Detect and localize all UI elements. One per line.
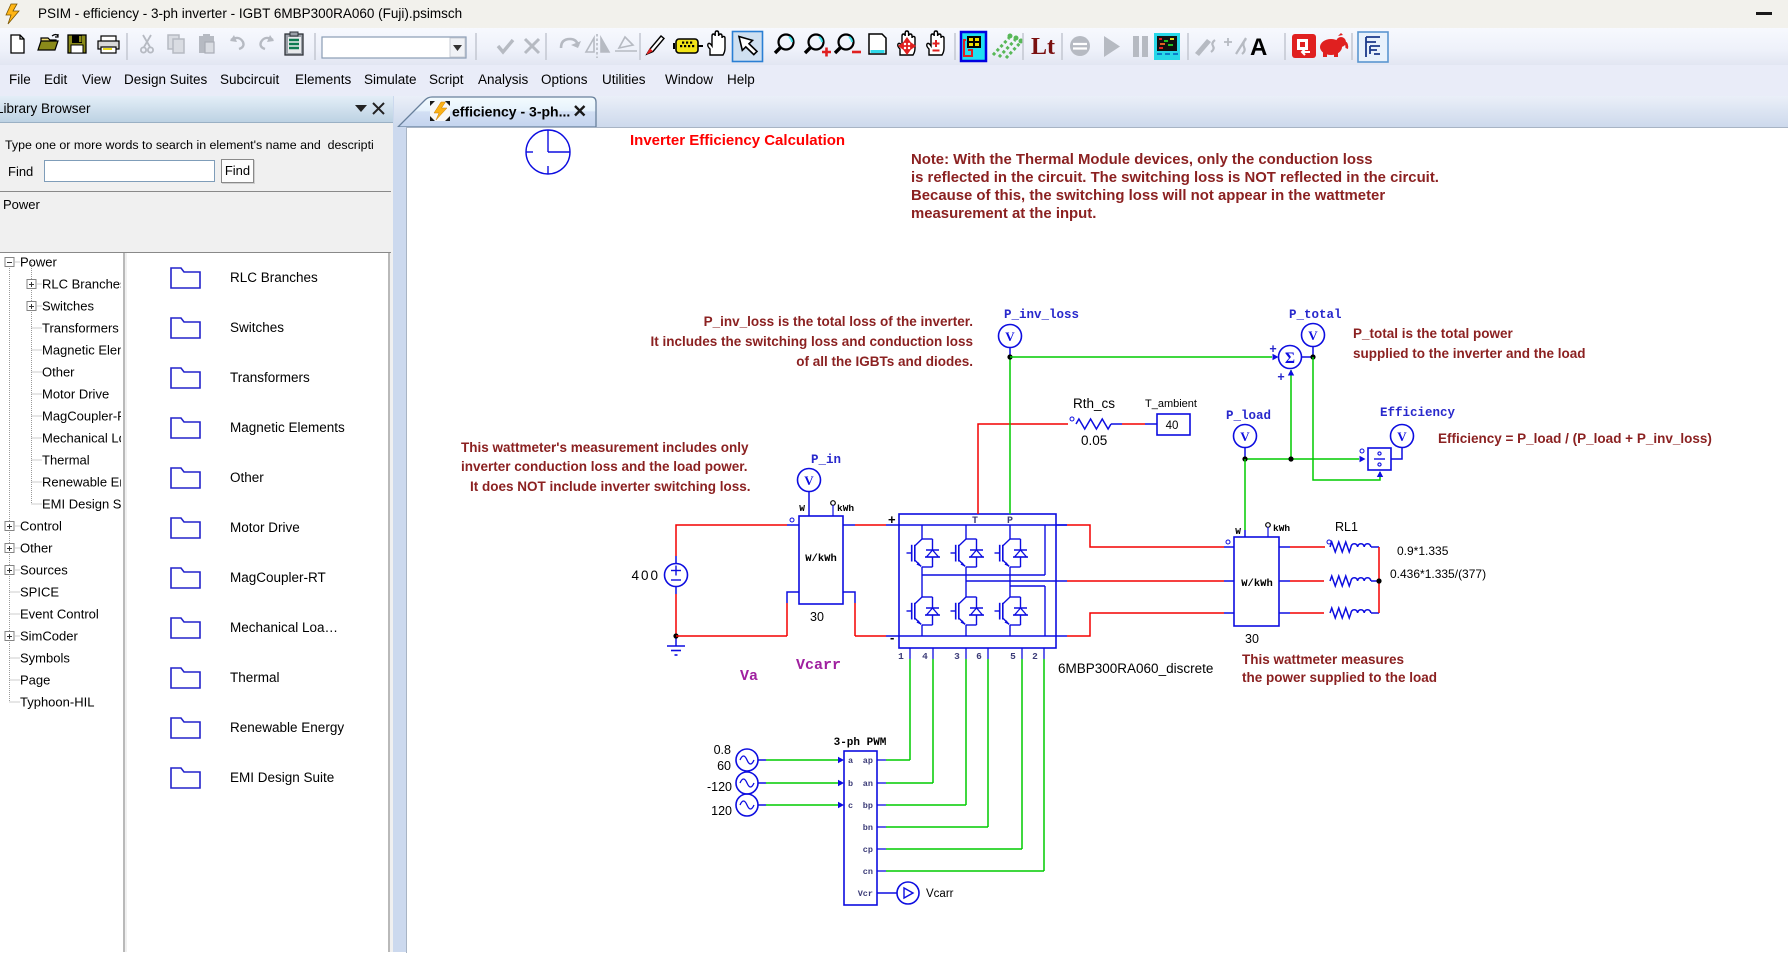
- node marker: load wattmeter phase A input: [1226, 540, 1230, 544]
- label: 60: [717, 759, 731, 773]
- svg-text:Vcr: Vcr: [858, 889, 873, 899]
- svg-text:a: a: [848, 756, 853, 766]
- svg-text:is reflected in the circuit.: is reflected in the circuit. The switchi…: [911, 170, 1439, 186]
- module gate pins 1 4 3 6 5 2: [898, 648, 1044, 662]
- svg-text:W/kWh: W/kWh: [805, 553, 837, 565]
- svg-text:V: V: [1308, 328, 1318, 343]
- sine source Vb -120: [736, 772, 766, 794]
- wire: RL star point (red): [1378, 547, 1380, 613]
- svg-text:60: 60: [717, 759, 731, 773]
- label: Rth_cs: [1073, 396, 1115, 411]
- node: P_inv_loss junction: [1007, 354, 1012, 359]
- window title bar: [0, 0, 1788, 28]
- svg-text:supplied to the inverter and t: supplied to the inverter and the load: [1353, 346, 1586, 361]
- wire: module P terminal riser (green): [1009, 357, 1011, 514]
- svg-text:400: 400: [631, 568, 660, 583]
- rl branch RL1 phase B: [1330, 576, 1379, 586]
- terminal W of input wattmeter: [799, 492, 809, 516]
- label: P_in: [811, 453, 841, 467]
- wire: ground bus to input wattmeter return (red): [676, 592, 799, 636]
- wire: phase B module to load wattmeter (red): [1056, 580, 1234, 582]
- svg-text:5: 5: [1010, 651, 1016, 662]
- summer block SUM1: [1279, 346, 1302, 369]
- wire: phase A module to load wattmeter (red): [1056, 525, 1234, 547]
- wire: load wattmeter phase C out (red): [1279, 612, 1324, 614]
- voltmeter P_total: [1302, 324, 1325, 358]
- label: 0.436*1.335/(377): [1390, 567, 1486, 581]
- label: 0.05: [1081, 433, 1107, 448]
- wire: Va to pwm a (green): [766, 757, 844, 763]
- rl branch RL1 phase A: [1330, 542, 1379, 552]
- svg-text:120: 120: [711, 804, 732, 818]
- wire: gate ap to pin 1 (green): [886, 659, 910, 760]
- svg-text:It includes the switching loss: It includes the switching loss and condu…: [650, 334, 973, 349]
- svg-text:P_inv_loss: P_inv_loss: [1004, 308, 1079, 322]
- pwm output stubs: [877, 760, 886, 871]
- transistor Q1/Q4 leg A upper IGBT with diode: [907, 525, 941, 575]
- wire: phase B midpoint to right edge: [966, 580, 1056, 582]
- menu bar: [0, 65, 1788, 96]
- svg-text:Because of this, the switching: Because of this, the switching loss will…: [911, 188, 1385, 204]
- rl branch RL1 phase C: [1330, 608, 1379, 618]
- label: 400: [631, 568, 660, 583]
- node: star point junction: [1376, 578, 1381, 583]
- node marker: Rth_cs input: [1070, 417, 1074, 421]
- annotation: load wattmeter description: [1242, 652, 1437, 685]
- wire: Vb to pwm b (green): [766, 780, 844, 786]
- wattmeter W2 (load) 3-phase W/kWh: [1234, 537, 1279, 626]
- label: 30 (input wattmeter): [810, 610, 824, 624]
- svg-text:Efficiency = P_load / (P_load: Efficiency = P_load / (P_load + P_inv_lo…: [1438, 431, 1712, 446]
- wire: source positive to input wattmeter (red): [676, 525, 799, 556]
- annotation: thermal module note: [911, 152, 1439, 222]
- label: T terminal: [972, 516, 978, 527]
- mdi left strip: [393, 96, 406, 952]
- label: + (summer left input): [1269, 342, 1276, 356]
- annotation: input wattmeter description: [461, 440, 751, 494]
- wire: P_inv_loss to summer (green): [1010, 354, 1279, 360]
- sine source Va 0.8/60: [736, 749, 766, 771]
- svg-text:W: W: [799, 503, 805, 514]
- svg-text:Va: Va: [740, 668, 758, 685]
- label: P_load: [1226, 409, 1271, 423]
- wire: Vcr to carrier probe: [877, 892, 897, 894]
- svg-text:It does NOT include inverter s: It does NOT include inverter switching l…: [470, 479, 751, 494]
- node: P_load junction at voltmeter: [1242, 456, 1247, 461]
- svg-text:bp: bp: [863, 801, 873, 811]
- terminal W of load wattmeter: [1235, 526, 1241, 537]
- transistor Q3/Q6 leg B lower IGBT with diode: [951, 581, 985, 636]
- svg-text:3-ph PWM: 3-ph PWM: [834, 737, 887, 749]
- label: Va (net, purple): [740, 668, 758, 685]
- transistor Q5/Q2 leg C lower IGBT with diode: [995, 586, 1029, 636]
- wire: load wattmeter phase B out (red): [1279, 580, 1324, 582]
- svg-text:0.05: 0.05: [1081, 433, 1107, 448]
- svg-text:3: 3: [954, 651, 960, 662]
- label: + (module dc input): [888, 512, 896, 527]
- label: Vcarr (probe name): [926, 888, 954, 900]
- svg-text:P_total is the total power: P_total is the total power: [1353, 326, 1514, 341]
- svg-text:+: +: [1269, 342, 1276, 356]
- label: Efficiency: [1380, 406, 1456, 420]
- node: source-ground junction: [673, 633, 678, 638]
- label: 120: [711, 804, 732, 818]
- svg-text:+: +: [888, 512, 896, 527]
- svg-text:cp: cp: [863, 845, 873, 855]
- svg-text:P_in: P_in: [811, 453, 841, 467]
- svg-text:of all the IGBTs and diodes.: of all the IGBTs and diodes.: [796, 354, 973, 369]
- svg-text:V: V: [1240, 429, 1250, 444]
- node: P_total junction: [1310, 354, 1315, 359]
- svg-text:Inverter Efficiency Calculatio: Inverter Efficiency Calculation: [630, 132, 845, 149]
- svg-text:kWh: kWh: [837, 503, 854, 514]
- pwm input pin labels a b c: [848, 756, 853, 811]
- pwm block 3-ph PWM: [844, 751, 877, 905]
- terminal kWh of load wattmeter: [1266, 523, 1291, 537]
- wire: gate cp to pin 5 (green): [886, 659, 1022, 849]
- wire: Vc to pwm c (green): [766, 802, 844, 808]
- voltage probe Vcarr: [897, 882, 919, 904]
- svg-text:V: V: [804, 473, 814, 488]
- svg-text:0.436*1.335/(377): 0.436*1.335/(377): [1390, 567, 1486, 581]
- wire: gate bp to pin 3 (green): [886, 659, 966, 805]
- wire: gate cn to pin 2 (green): [886, 659, 1044, 871]
- label: 3-ph PWM: [834, 737, 887, 749]
- constant block T_ambient = 40: [1157, 414, 1190, 435]
- svg-text:cn: cn: [863, 867, 873, 877]
- terminal kWh of input wattmeter: [831, 501, 855, 516]
- transistor Q3/Q6 leg B upper IGBT with diode: [951, 525, 985, 581]
- wire: summer output to P_total node: [1302, 356, 1314, 358]
- svg-text:0.8: 0.8: [714, 743, 731, 757]
- svg-text:ap: ap: [863, 756, 873, 766]
- schematic canvas: [406, 127, 1788, 953]
- label: P_total: [1289, 308, 1342, 322]
- sine source Vc 120: [736, 794, 766, 816]
- svg-text:0.9*1.335: 0.9*1.335: [1397, 544, 1449, 558]
- dc source VDC 400V: [665, 556, 688, 594]
- label: T_ambient: [1145, 398, 1197, 410]
- wire: module T terminal riser (red): [978, 424, 1068, 514]
- ground: [667, 636, 685, 655]
- svg-text:the power supplied to the load: the power supplied to the load: [1242, 670, 1437, 685]
- node: P_load junction at summer branch: [1288, 456, 1293, 461]
- transistor Q5/Q2 leg C upper IGBT with diode: [995, 525, 1029, 586]
- svg-text:inverter conduction loss and t: inverter conduction loss and the load po…: [461, 459, 748, 474]
- svg-text:kWh: kWh: [1273, 523, 1290, 534]
- label: 0.9*1.335: [1397, 544, 1449, 558]
- svg-text:P_load: P_load: [1226, 409, 1271, 423]
- label: -120: [707, 780, 732, 794]
- annotation: schematic title: [630, 132, 845, 149]
- svg-text:Σ: Σ: [1285, 350, 1295, 367]
- pwm output pin labels ap an bp bn cp cn Vcr: [858, 756, 873, 899]
- wattmeter W1 (input) W/kWh: [799, 516, 843, 604]
- svg-text:4: 4: [922, 651, 928, 662]
- svg-text:Note: With the Thermal Module: Note: With the Thermal Module devices, o…: [911, 152, 1373, 168]
- resistor Rth_cs: [1076, 419, 1122, 429]
- document tab strip: [394, 96, 1788, 127]
- label: - (module dc return): [890, 630, 894, 645]
- annotation: efficiency formula: [1438, 431, 1712, 446]
- svg-text:This wattmeter measures: This wattmeter measures: [1242, 652, 1404, 667]
- wire: module internal - bus: [899, 635, 1056, 637]
- annotation: P_total description: [1353, 326, 1586, 361]
- svg-text:Efficiency: Efficiency: [1380, 406, 1456, 420]
- wire: P_load bus to divider (green): [1245, 456, 1366, 462]
- wire: load wattmeter phase A out (red): [1279, 546, 1325, 548]
- svg-text:6: 6: [976, 651, 982, 662]
- clock element: [526, 130, 570, 174]
- label: + (summer bottom input): [1277, 370, 1284, 384]
- label: 0.8: [714, 743, 731, 757]
- svg-text:6MBP300RA060_discrete: 6MBP300RA060_discrete: [1058, 661, 1213, 676]
- svg-text:-120: -120: [707, 780, 732, 794]
- svg-text:V: V: [1397, 429, 1407, 444]
- label: Vcarr (net, purple): [796, 657, 841, 674]
- svg-text:Vcarr: Vcarr: [796, 657, 841, 674]
- label: 6MBP300RA060_discrete: [1058, 661, 1213, 676]
- svg-text:RL1: RL1: [1335, 520, 1358, 534]
- svg-text:T_ambient: T_ambient: [1145, 398, 1197, 410]
- node marker: divider input: [1360, 449, 1364, 453]
- svg-text:Rth_cs: Rth_cs: [1073, 396, 1115, 411]
- label: RL1: [1335, 520, 1358, 534]
- svg-text:V: V: [1005, 329, 1015, 344]
- svg-text:measurement at the input.: measurement at the input.: [911, 206, 1096, 222]
- voltmeter P_load: [1234, 425, 1257, 460]
- wire: input wattmeter return to module - (red): [843, 592, 899, 636]
- svg-text:bn: bn: [863, 823, 873, 833]
- svg-text:-: -: [890, 630, 894, 645]
- svg-text:30: 30: [1245, 632, 1259, 646]
- svg-text:P_inv_loss is the total loss o: P_inv_loss is the total loss of the inve…: [704, 314, 973, 329]
- wire: Rth_cs to T_ambient (red): [1122, 423, 1157, 425]
- svg-text:40: 40: [1166, 420, 1179, 432]
- wire: P_load to summer bottom input (green): [1288, 370, 1294, 460]
- svg-text:1: 1: [898, 651, 904, 662]
- svg-text:This wattmeter's measurement i: This wattmeter's measurement includes on…: [461, 440, 749, 455]
- wire: phase C module to load wattmeter (red): [1056, 613, 1234, 636]
- wire: gate bn to pin 6 (green): [886, 659, 988, 827]
- wire: phase C midpoint to riser: [1010, 586, 1045, 636]
- divider block DIV1: [1368, 448, 1391, 470]
- svg-text:an: an: [863, 779, 873, 789]
- wire: P_total down to divider bottom input (green): [1313, 357, 1383, 480]
- svg-text:c: c: [848, 801, 853, 811]
- svg-text:b: b: [848, 779, 853, 789]
- voltmeter P_inv_loss: [999, 325, 1022, 358]
- voltmeter P_in: [798, 469, 821, 493]
- svg-text:2: 2: [1032, 651, 1038, 662]
- wire: input wattmeter to module + (red): [843, 524, 899, 526]
- svg-text:W: W: [1235, 526, 1241, 537]
- label: P_inv_loss: [1004, 308, 1079, 322]
- svg-text:30: 30: [810, 610, 824, 624]
- annotation: P_inv_loss description: [650, 314, 973, 369]
- svg-text:P_total: P_total: [1289, 308, 1342, 322]
- toolbar: [0, 28, 1788, 65]
- node marker: RL1 phase A input: [1327, 540, 1331, 544]
- library browser panel: [0, 96, 393, 952]
- label: P terminal: [1007, 516, 1013, 527]
- label: 30 (load wattmeter): [1245, 632, 1259, 646]
- wire: source negative to ground bus (red): [675, 594, 677, 636]
- wire: gate an to pin 4 (green): [886, 659, 933, 783]
- svg-text:W/kWh: W/kWh: [1241, 578, 1273, 590]
- svg-text:Vcarr: Vcarr: [926, 888, 954, 900]
- wire: module internal + bus: [899, 524, 1067, 526]
- wire: P_load voltmeter tap to load wattmeter W terminal (green): [1244, 459, 1246, 537]
- node marker: wattmeter P input: [790, 518, 794, 522]
- svg-text:+: +: [1277, 370, 1284, 384]
- voltmeter Efficiency: [1391, 425, 1414, 460]
- IGBT module 6MBP300RA060 outline U1: [899, 514, 1056, 648]
- wire: phase A midpoint to riser: [922, 525, 1045, 575]
- transistor Q1/Q4 leg A lower IGBT with diode: [907, 575, 941, 636]
